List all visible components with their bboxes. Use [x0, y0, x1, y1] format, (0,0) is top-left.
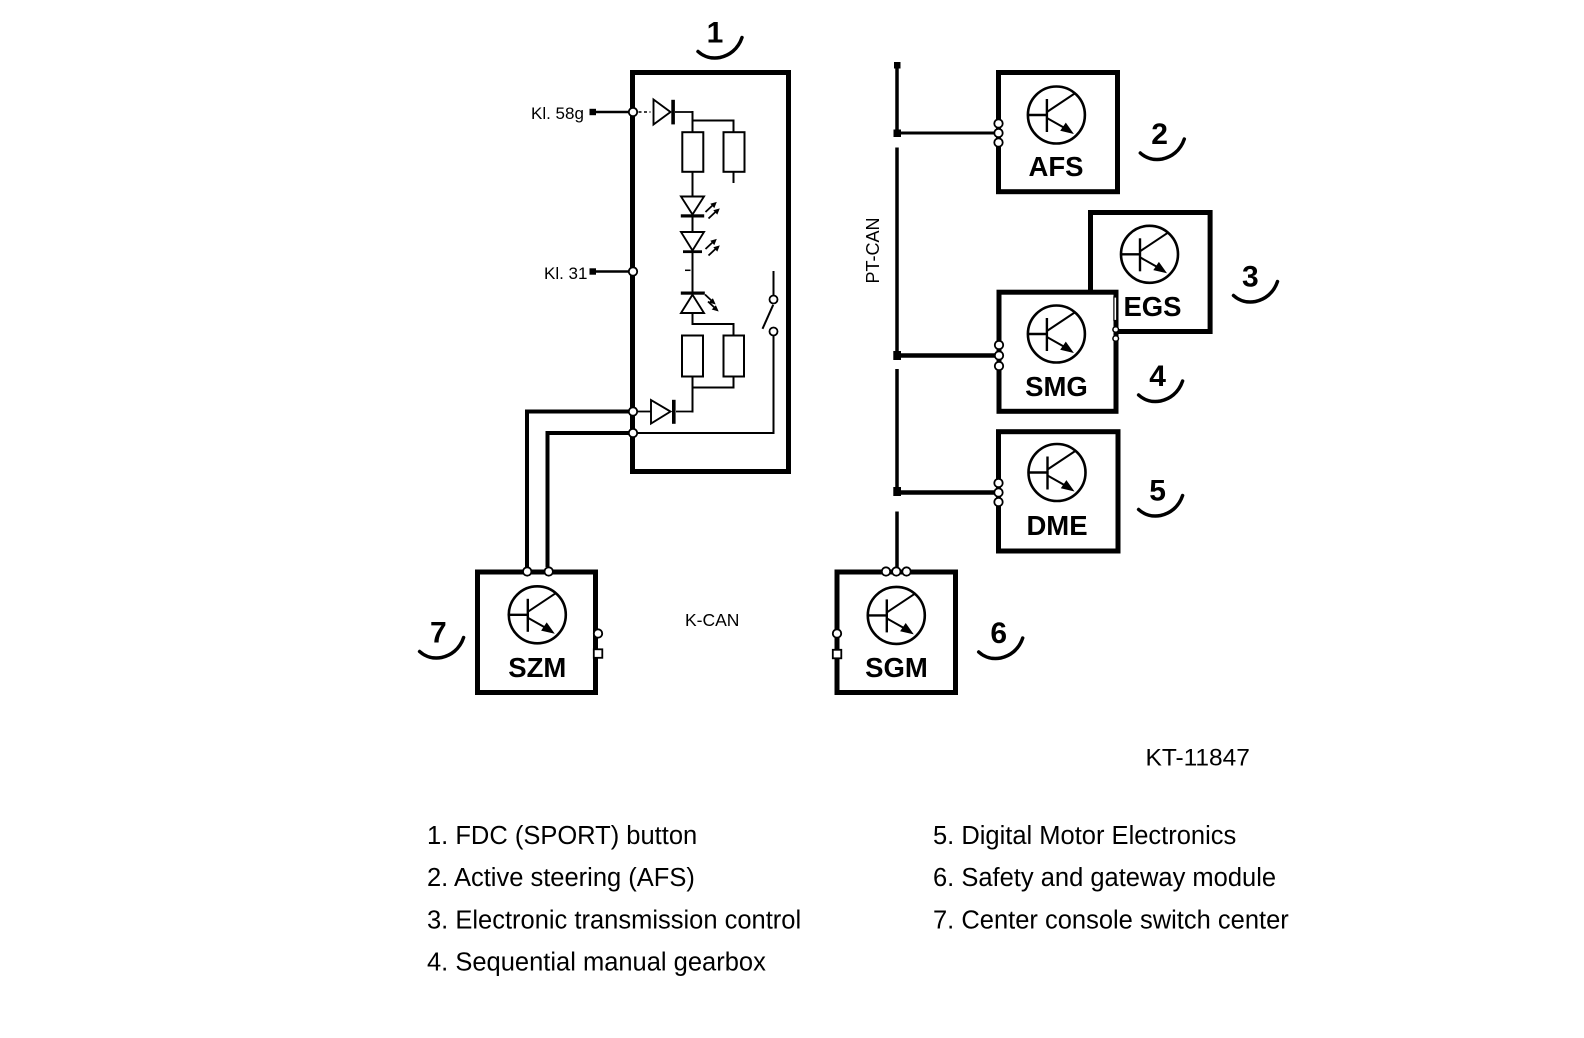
wire down to D2 level — [692, 388, 694, 413]
pin EGS stub circles — [1113, 327, 1119, 342]
LED D3 — [681, 197, 704, 215]
svg-text:4. Sequential manual gearbox: 4. Sequential manual gearbox — [427, 949, 766, 977]
wire switch return — [637, 334, 774, 433]
svg-text:6: 6 — [990, 617, 1007, 650]
svg-text:4: 4 — [1149, 360, 1166, 393]
wire Kl. 31 lead — [596, 270, 630, 273]
wire switch top lead — [773, 271, 775, 296]
wire node across to R4 — [693, 324, 734, 336]
svg-text:SMG: SMG — [1025, 371, 1088, 402]
resistor R2 — [724, 132, 745, 172]
pin SGM left connector circle — [833, 629, 841, 637]
junction DME branch — [893, 487, 901, 496]
control module U6 SGM box — [837, 572, 956, 693]
op-amp U2 AFS control-unit icon — [1028, 87, 1085, 144]
pointer arc 4 — [1139, 381, 1183, 401]
wire PT-CAN bus segment 2 — [895, 148, 899, 353]
svg-text:7. Center console switch cente: 7. Center console switch center — [933, 906, 1289, 934]
pin FDC connector circles — [629, 108, 637, 437]
svg-text:SZM: SZM — [508, 652, 566, 683]
svg-text:SGM: SGM — [865, 652, 928, 683]
pin SMG connector circles — [995, 341, 1003, 370]
wire dashed link to diode D1 — [639, 111, 651, 113]
svg-text:2: 2 — [1151, 118, 1168, 151]
wire branch to AFS — [897, 132, 995, 135]
wire node down to R1 — [692, 111, 694, 133]
pin EGS stub slot on SMG edge — [1114, 297, 1117, 321]
svg-text:7: 7 — [430, 617, 447, 650]
junction AFS branch — [894, 130, 902, 138]
svg-text:AFS: AFS — [1029, 151, 1084, 182]
wire branch to SMG — [897, 353, 995, 358]
control module U5 DME box — [999, 432, 1119, 551]
control module U2 AFS box — [999, 73, 1118, 192]
terminal square Kl. 58g — [590, 109, 597, 115]
pointer arc 3 — [1234, 282, 1278, 302]
wire D2 anode to output — [637, 411, 651, 413]
wire PT-CAN bus segment 4 — [895, 512, 899, 568]
wire K-CAN high to SZM — [527, 412, 633, 568]
wire D1 to node — [675, 111, 694, 113]
pointer arc 7 — [420, 638, 464, 658]
wire below R3 R4 — [693, 377, 734, 388]
terminal square Kl. 31 — [590, 268, 597, 274]
svg-text:1. FDC (SPORT) button: 1. FDC (SPORT) button — [427, 822, 697, 850]
switch S1 contact bottom — [770, 328, 778, 336]
wire D2 cathode — [676, 411, 694, 413]
pointer arc 6 — [979, 638, 1023, 658]
svg-text:2. Active steering (AFS): 2. Active steering (AFS) — [427, 864, 695, 892]
wire PT-CAN bus segment 3 — [895, 369, 899, 488]
op-amp U6 SGM control-unit icon — [868, 587, 925, 644]
svg-text:5: 5 — [1149, 475, 1166, 508]
pin AFS connector circles — [994, 119, 1002, 146]
op-amp U7 SZM control-unit icon — [509, 586, 566, 643]
svg-text:1: 1 — [707, 17, 724, 50]
wire LED1 to LED2 — [692, 215, 694, 233]
svg-text:DME: DME — [1026, 510, 1087, 541]
resistor R3 — [682, 336, 703, 377]
pointer arc 2 — [1140, 139, 1184, 159]
diode D2 — [672, 400, 676, 424]
pointer arc 1 — [698, 38, 742, 58]
pin SGM left connector square — [833, 650, 842, 659]
control module U4 SMG box — [999, 292, 1116, 411]
wire PT-CAN bus segment 1 — [895, 66, 899, 131]
junction SMG branch — [893, 351, 901, 360]
op-amp U5 DME control-unit icon — [1029, 444, 1086, 501]
resistor R1 — [682, 132, 703, 172]
svg-text:K-CAN: K-CAN — [685, 610, 739, 630]
svg-text:5. Digital Motor Electronics: 5. Digital Motor Electronics — [933, 822, 1236, 850]
wire Kl. 58g lead — [596, 111, 630, 114]
svg-text:3: 3 — [1242, 261, 1259, 294]
wire LED2 to LED3 — [692, 251, 694, 293]
pin DME connector circles — [994, 479, 1002, 506]
control module U7 SZM box — [478, 572, 596, 693]
wire R1 to LED1 — [692, 172, 694, 197]
svg-text:Kl. 58g: Kl. 58g — [531, 104, 584, 123]
pin SZM top connector circles — [523, 567, 553, 575]
control module U3 EGS box — [1091, 213, 1211, 332]
wire branch to DME — [897, 490, 995, 495]
pointer arc 5 — [1139, 496, 1183, 516]
wire K-CAN low to SZM — [548, 433, 634, 567]
op-amp U4 SMG control-unit icon — [1028, 306, 1085, 363]
wire R2 stub — [733, 172, 735, 183]
component 1 FDC SPORT button box — [633, 73, 789, 472]
svg-text:3. Electronic transmission con: 3. Electronic transmission control — [427, 906, 801, 934]
node tick at Kl.31 level — [685, 269, 691, 271]
wire node across to R2 — [693, 121, 734, 133]
diode D1 — [654, 100, 671, 125]
svg-text:PT-CAN: PT-CAN — [863, 217, 883, 283]
op-amp U3 EGS control-unit icon — [1121, 226, 1178, 283]
svg-text:Kl. 31: Kl. 31 — [544, 264, 587, 283]
resistor R4 — [724, 336, 745, 377]
pin SGM top connector circles — [882, 567, 911, 575]
svg-text:6. Safety and gateway module: 6. Safety and gateway module — [933, 864, 1276, 892]
LED D4 — [681, 232, 704, 251]
pin SZM right connector circle — [594, 629, 602, 637]
pin SZM right connector square — [594, 649, 603, 658]
switch S1 contact top — [770, 296, 778, 304]
wire LED3 to lower resistors node — [692, 313, 694, 325]
svg-text:KT-11847: KT-11847 — [1146, 745, 1250, 772]
PT-CAN bus terminator square — [894, 62, 901, 69]
LED D5 — [681, 292, 705, 295]
svg-text:EGS: EGS — [1123, 291, 1181, 322]
switch S1 lever — [763, 305, 774, 329]
